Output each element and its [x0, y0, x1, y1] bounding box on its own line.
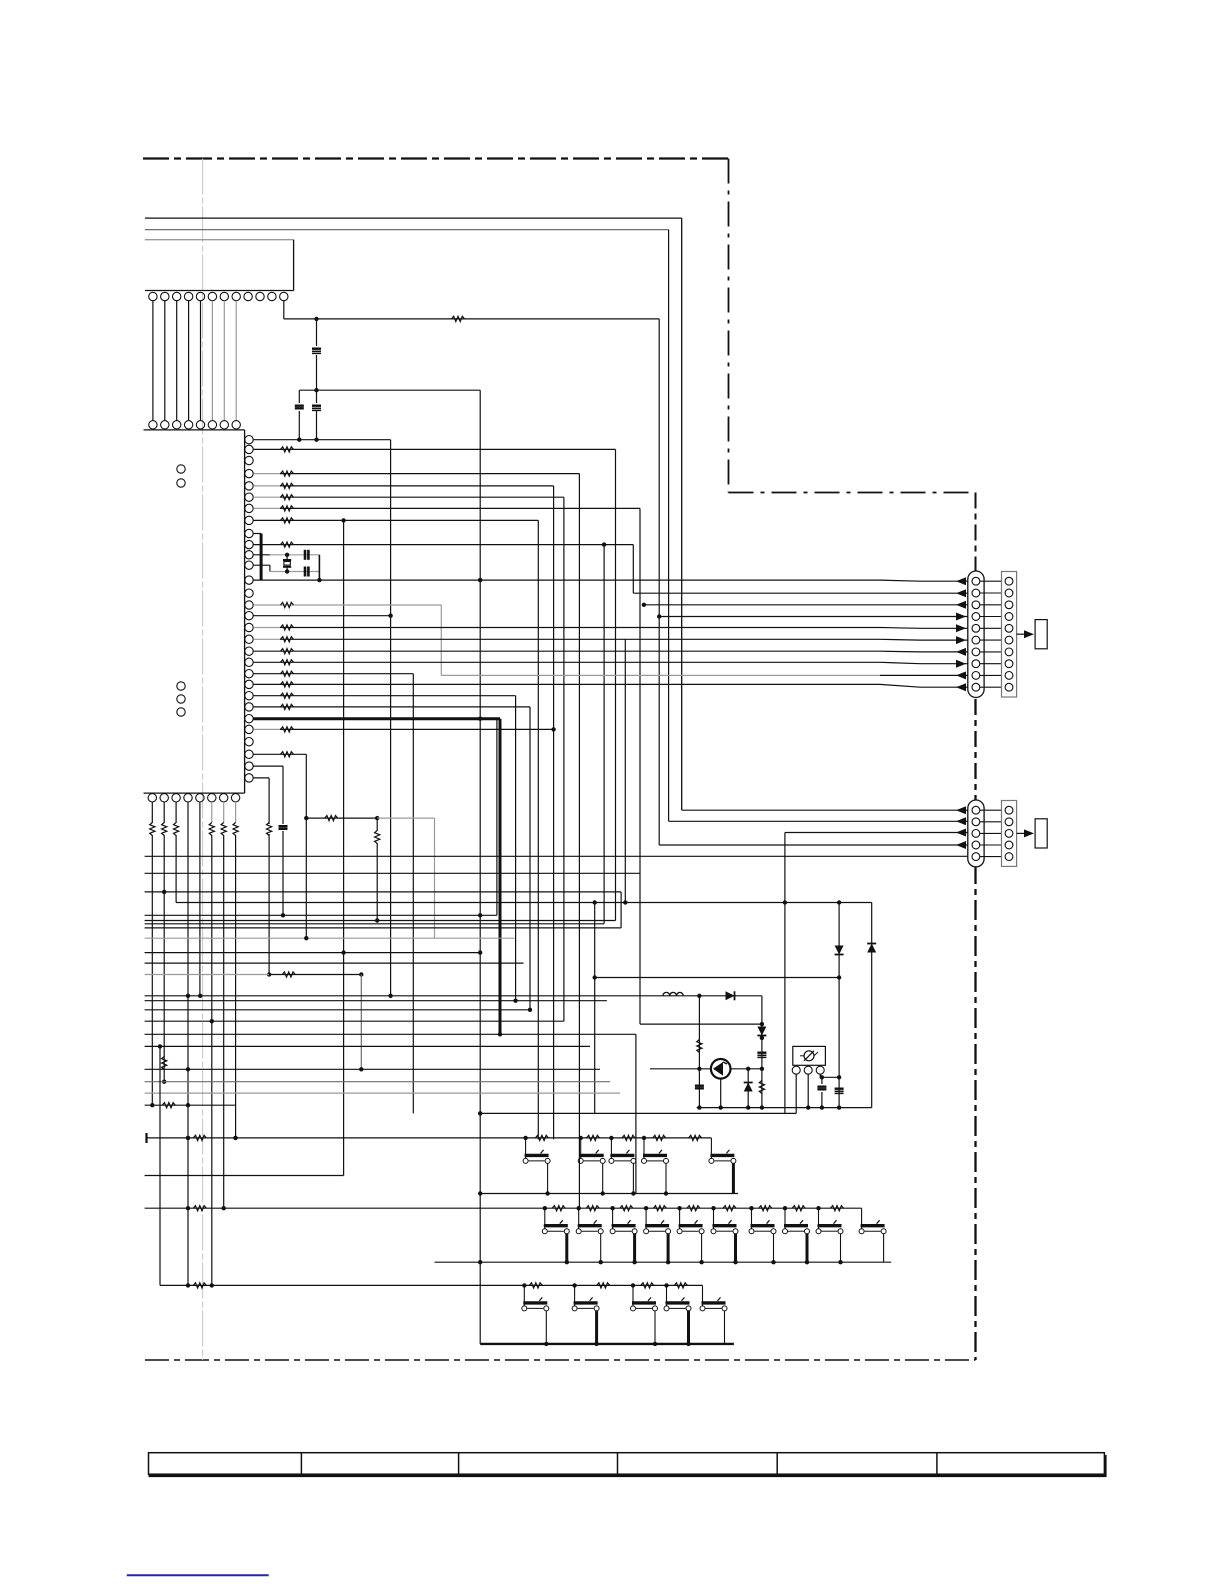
vertical x871 with diode	[871, 903, 873, 1108]
wire IC pin13 long to connector1 line1	[253, 579, 880, 581]
board outline dash-dot top	[143, 157, 729, 159]
thick vertical x500	[499, 719, 502, 1035]
wire IC pin16 to x390	[253, 615, 390, 617]
title block table	[149, 1453, 1105, 1475]
resistor on x761 lower	[759, 1081, 764, 1094]
wire IC pin2 with resistor	[253, 448, 615, 450]
stub pin9	[253, 533, 261, 535]
wire y1113 resonator to x480	[480, 1112, 796, 1114]
display block pins	[149, 292, 157, 300]
connector2 line3	[785, 832, 968, 834]
bus wire y1069	[145, 1068, 600, 1070]
crystal rail top	[270, 554, 320, 556]
bus wire y995 long to inductor and diode	[145, 995, 762, 997]
transistor	[711, 1059, 731, 1079]
wire vertical x615	[615, 449, 617, 920]
board outline dash-dot right vertical upper	[975, 493, 977, 572]
wire IC pin22 to connector1 line10	[253, 683, 880, 685]
wire IC pin19 to connector1 line7	[253, 650, 880, 652]
wire IC pin4 resistor	[253, 473, 280, 475]
wire vertical x635	[635, 1034, 637, 1193]
bus wire y873	[145, 872, 640, 874]
wire vertical x530	[529, 707, 531, 1010]
switch row2 bottom rail	[435, 1261, 892, 1263]
switch row3 rail	[160, 1284, 703, 1286]
capacitor x821	[821, 1077, 823, 1084]
connector2 line4	[659, 844, 968, 846]
wire IC pin24	[253, 706, 530, 708]
capacitor from pin12 wire	[316, 319, 318, 346]
vertical x377 with resistor	[376, 818, 378, 831]
wire IC pin7 resistor	[253, 507, 280, 509]
gray vertical x361	[360, 975, 362, 1070]
connector CN2	[968, 800, 984, 867]
capacitor on x761	[757, 1051, 766, 1053]
vertical x699 with resistor	[698, 996, 700, 1108]
capacitor right of pair	[316, 390, 318, 403]
wire vertical x390	[390, 440, 392, 996]
IC bottom pin wires with resistors	[151, 802, 153, 823]
bus wire to connector2 line5	[145, 855, 972, 857]
wire y977 feed	[595, 977, 839, 979]
wire vertical x633 short	[632, 545, 634, 594]
wire vertical x604 long	[603, 545, 605, 924]
wire resistor branch y818	[306, 817, 377, 819]
connector1 line4 from x659	[659, 616, 968, 618]
wire vertical x553	[553, 486, 555, 1139]
wire IC pin26	[253, 728, 280, 730]
wire vertical x269 with resistor	[268, 778, 270, 824]
corner wire pin3 to transistor feed	[176, 902, 872, 904]
bus wire y915	[145, 914, 497, 916]
title block shadow bottom	[149, 1474, 1107, 1477]
IC box right edge	[244, 430, 246, 788]
switch row2 rail	[145, 1207, 862, 1209]
connector1 line3 from x643	[644, 604, 968, 606]
wire IC pin28	[253, 753, 306, 755]
wire vertical x668 to connector2 line2	[668, 230, 670, 822]
wire IC pin17 to connector1 line5	[253, 627, 280, 629]
capacitor on x699	[695, 1084, 704, 1086]
wire IC pin23	[253, 695, 515, 697]
footer link line	[127, 1574, 269, 1576]
capacitor x839 lower	[835, 1087, 844, 1089]
IC internal test pads lower	[177, 682, 185, 690]
wire top bus 2	[145, 229, 669, 231]
gray vertical x441	[440, 605, 442, 675]
bus wire y952	[145, 952, 482, 954]
diode on x761	[757, 1027, 766, 1036]
wire IC pin30	[253, 777, 269, 779]
vertical x839 with diode	[838, 903, 840, 1108]
switch row3 bottom rail	[480, 1343, 734, 1345]
stub pin11	[253, 554, 270, 556]
bus wire y1105 with resistor	[145, 1104, 236, 1106]
IC bottom pins	[148, 794, 156, 802]
wire IC pin29	[253, 765, 283, 767]
crystal cluster bus bar	[260, 534, 263, 581]
vertical x621 connecting y891 and y927	[620, 892, 622, 928]
wire vertical x640	[639, 508, 641, 1024]
wire vertical x538	[537, 520, 539, 1139]
wire IC pin1	[253, 439, 390, 441]
board outline dash-dot step horizontal	[729, 492, 976, 494]
wire vertical x563	[563, 497, 565, 1021]
junction on pin12 wire	[314, 317, 318, 321]
transistor collector down	[720, 1079, 722, 1108]
gray wire y675 to connector1 line9	[441, 674, 880, 676]
wires display block to IC top pins	[152, 301, 154, 421]
connector2 line2	[669, 820, 968, 822]
wire vertical x413	[412, 674, 414, 1114]
wire IC pin20 to connector1 line8	[253, 661, 880, 663]
IC box bottom edge	[144, 792, 245, 794]
gray vertical x434	[434, 818, 436, 938]
IC right pins	[245, 436, 253, 444]
wire vertical x283 with capacitor	[282, 766, 284, 824]
bus wire y920	[145, 920, 616, 922]
IC box top edge	[144, 429, 245, 431]
resonator pins	[792, 1066, 800, 1074]
gray extension of y818	[377, 817, 434, 819]
stub pin12	[253, 564, 270, 566]
board outline dash-dot right vertical middle	[974, 699, 976, 800]
bus wire gray y1093	[145, 1092, 620, 1094]
wire display pin 12 down	[283, 301, 285, 319]
wire IC pin10 resistor long	[253, 544, 633, 546]
connector2 line1	[682, 809, 968, 811]
bus wire y963	[145, 962, 524, 964]
wire pin12 horizontal to right	[284, 318, 659, 320]
switch row3 switches	[523, 1285, 525, 1305]
bus wire y1034	[145, 1033, 636, 1035]
wire vertical x659 to connector2 line4	[658, 319, 660, 845]
wire IC pin5 resistor	[253, 485, 280, 487]
transistor base wire	[650, 1068, 711, 1070]
wire vertical x515	[515, 696, 517, 1001]
bus wire dark y1081	[145, 1081, 610, 1083]
wire IC pin6 resistor	[253, 496, 280, 498]
wire big vertical x480	[479, 390, 481, 1344]
board outline dash-dot right vertical lower	[974, 864, 976, 1360]
wire vertical x594	[594, 903, 596, 1114]
vertical x761 diode branch	[761, 996, 763, 1108]
resonator pin wires	[795, 1074, 797, 1113]
vertical resistor on x164	[162, 1057, 167, 1070]
wire long vertical x343	[343, 520, 345, 1175]
resistor on pin12 wire	[452, 316, 465, 321]
wire IC pin18 to connector1 line6	[253, 638, 280, 640]
transistor emitter wire	[730, 1068, 762, 1070]
ground rail y1107	[697, 1107, 872, 1109]
switch row2 switches	[544, 1208, 546, 1228]
connector1 line2 from x633	[633, 592, 968, 594]
vertical x784 down to resonator line	[784, 833, 786, 1114]
bus wire y927	[145, 927, 621, 929]
capacitor left of pair	[298, 390, 300, 403]
bus wire y891	[145, 891, 621, 893]
board centerline gray dash-dot	[202, 159, 204, 1361]
board outline dash-dot right upper vertical	[728, 159, 730, 493]
wire IC pin8 resistor	[253, 519, 538, 521]
wire y1024	[640, 1023, 762, 1025]
connector CN1	[968, 571, 984, 698]
IC top pins	[149, 421, 157, 429]
wire vertical x579	[578, 474, 580, 1209]
bus wire y1175 corner up	[145, 1175, 344, 1177]
bus wire y1046	[145, 1045, 590, 1047]
wire IC pin15 gray detour	[253, 604, 280, 606]
bus wire y1000	[145, 1000, 607, 1002]
bus wire y1021	[145, 1020, 564, 1022]
riser x496	[496, 719, 498, 916]
wire IC pin21 with resistor	[253, 673, 413, 675]
crystal right vertical	[318, 555, 320, 580]
vertical x748 with diode	[747, 1069, 749, 1108]
resonator box	[793, 1046, 826, 1065]
bus wire gray y938	[145, 937, 515, 939]
crystal resonator	[285, 553, 289, 557]
vertical feeder x160 for row3 rail	[159, 1046, 161, 1285]
display block box	[145, 239, 294, 241]
switch row1 rail	[145, 1133, 147, 1143]
wire vertical x306	[305, 754, 307, 938]
IC internal test pads upper	[177, 465, 185, 473]
thick wire IC pin25	[253, 717, 500, 720]
switch row1 bottom rail	[480, 1193, 738, 1195]
wire top bus 1	[145, 217, 682, 219]
bus wire y1009	[145, 1009, 530, 1011]
board outline dash-dot bottom	[145, 1359, 976, 1361]
wire vertical x681 to connector2 line1	[681, 218, 683, 810]
wire vertical x625 decorative	[624, 639, 626, 902]
switch row1 switches	[525, 1138, 527, 1158]
crystal rail bottom	[270, 571, 320, 573]
title block shadow right	[1104, 1455, 1107, 1476]
wire horizontal y390	[299, 389, 480, 391]
bus wire gray y974 with resistor	[145, 974, 270, 976]
bus wire y923	[145, 923, 604, 925]
